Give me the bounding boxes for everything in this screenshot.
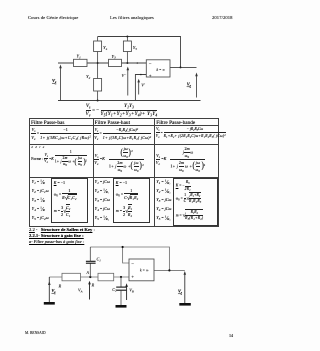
- row4 col1 result box: [51, 178, 88, 223]
- svg-text:V−: V−: [122, 73, 127, 79]
- node B junction (inverting input): [126, 62, 128, 64]
- node A: [86, 271, 92, 278]
- node B: [120, 276, 122, 278]
- capacitor C2: [112, 277, 126, 305]
- svg-text:C1: C1: [97, 257, 102, 263]
- node A junction: [97, 62, 99, 64]
- row2 col1 : low-pass transfer function: [31, 126, 91, 141]
- source arrow Ve: [52, 65, 62, 101]
- junction dot + input wire: [140, 74, 142, 76]
- header left: [28, 15, 78, 20]
- svg-text:Ve: Ve: [52, 288, 57, 294]
- voltage arrow VA: [78, 281, 91, 300]
- header center: [110, 15, 154, 20]
- row3 col1 : canonical form low-pass: [31, 145, 45, 149]
- ground (under C2): [116, 305, 127, 308]
- op-amp U1 (k = infinity): [146, 60, 170, 80]
- resistor Y4: [94, 37, 108, 64]
- footer page number: [229, 333, 233, 338]
- row4 col2 result box: [113, 178, 150, 223]
- source arrow Ve (bottom): [48, 277, 56, 302]
- resistor Y2: [86, 63, 102, 101]
- svg-text:A: A: [86, 271, 90, 275]
- wire: non-inverting input to ground rail: [135, 75, 146, 101]
- ground (under Vs): [179, 303, 191, 306]
- wire: input node to op-amp inverting input (main horizontal wire): [58, 62, 146, 64]
- svg-text:V': V': [141, 83, 145, 88]
- svg-text:Y3: Y3: [112, 54, 117, 60]
- junction dot node A bottom: [97, 100, 99, 102]
- junction dot top rail / Y5: [126, 36, 128, 38]
- svg-text:+: +: [131, 275, 134, 280]
- ground (under Ve): [44, 302, 55, 305]
- row3 col3 : canonical form band-pass: [156, 146, 206, 173]
- resistor Y5: [123, 37, 137, 64]
- svg-text:Vs: Vs: [187, 82, 192, 88]
- svg-text:Y4: Y4: [103, 45, 108, 51]
- transfer function formula: [86, 103, 158, 118]
- voltage arrow V' at + input: [137, 79, 145, 95]
- circuit schematic : Rauch structure (top): [0, 0, 248, 351]
- wire: input to + input: [49, 276, 129, 278]
- svg-text:R: R: [58, 284, 62, 289]
- svg-text:−: −: [149, 63, 152, 68]
- TABLE: [29, 118, 220, 227]
- junction dot top rail: [122, 246, 124, 248]
- wire: top feedback rail: [98, 37, 181, 68]
- wire: output wire: [170, 66, 197, 68]
- wire: C1 feedback top rail: [90, 247, 169, 270]
- section heading 2.2: [29, 227, 95, 232]
- svg-text:C2: C2: [112, 287, 117, 293]
- row2 col2 : high-pass transfer function: [94, 126, 151, 141]
- junction dot output: [168, 269, 170, 271]
- junction dot output/feedback: [180, 66, 182, 68]
- svg-text:Ve: Ve: [52, 78, 57, 84]
- resistor Y1: [74, 54, 88, 67]
- resistor Y3: [109, 54, 122, 67]
- footer left: [25, 331, 46, 335]
- voltage arrow V- at node B: [122, 67, 130, 96]
- svg-text:+: +: [149, 75, 152, 80]
- resistor R (second): [91, 273, 114, 287]
- section heading 2.2.1: [29, 233, 84, 238]
- svg-text:Y5: Y5: [133, 45, 138, 51]
- wire: inverting branch down to op-amp: [123, 247, 129, 263]
- svg-text:Vs: Vs: [178, 289, 183, 295]
- wire: bottom ground rail: [58, 100, 201, 102]
- header right: [212, 15, 233, 20]
- resistor R (first): [58, 273, 81, 288]
- svg-text:k = ∞: k = ∞: [157, 68, 166, 72]
- svg-text:k = ∞: k = ∞: [140, 269, 149, 273]
- svg-text:Y1: Y1: [77, 54, 82, 60]
- svg-text:VA: VA: [78, 288, 83, 294]
- row4 col2 : admittance list high-pass: [95, 177, 110, 222]
- row4 col3 : admittance list band-pass: [156, 177, 171, 222]
- row3 col2 : canonical form high-pass: [94, 146, 144, 173]
- header cells: [31, 120, 64, 126]
- row4 col3 result box: [173, 178, 218, 226]
- svg-text:R: R: [91, 283, 95, 288]
- output voltage arrow Vs (bottom circuit): [178, 271, 186, 303]
- section heading a-: [29, 239, 84, 244]
- row2 col3 : band-pass transfer function: [156, 126, 226, 141]
- svg-text:−: −: [131, 262, 134, 267]
- svg-text:VB: VB: [129, 288, 134, 294]
- svg-text:Y2: Y2: [86, 74, 91, 80]
- op-amp U2 (k = infinity): [129, 259, 154, 281]
- capacitor C1: [86, 247, 101, 277]
- wire: output: [154, 269, 185, 271]
- voltage arrow VB: [125, 283, 134, 300]
- junction dot on inverting wire: [137, 62, 139, 64]
- output voltage arrow Vs: [187, 73, 198, 98]
- row4 col1 : admittance list low-pass: [32, 177, 49, 222]
